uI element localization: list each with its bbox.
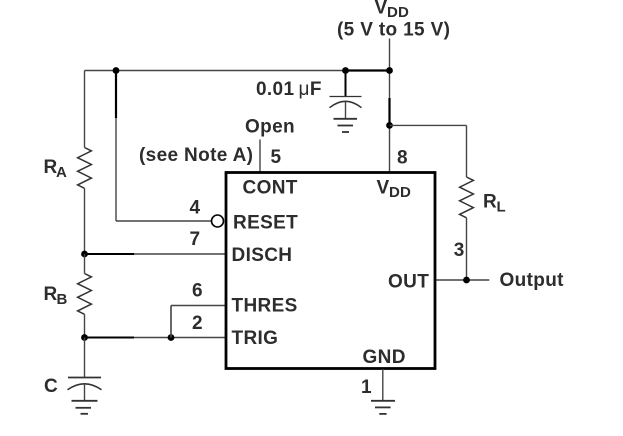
svg-text:THRES: THRES xyxy=(232,296,298,317)
svg-text:4: 4 xyxy=(190,198,201,219)
junction VDD to RL branch xyxy=(386,122,393,129)
RESET inverting bubble xyxy=(212,215,224,227)
wire VDD pin 8 lead xyxy=(389,125,391,172)
resistor RA xyxy=(78,148,92,189)
label RL xyxy=(483,192,506,216)
wire CONT pin 5 lead xyxy=(259,140,261,173)
svg-text:0.01 μF: 0.01 μF xyxy=(256,79,322,100)
wire RESET branch vertical thick part xyxy=(115,70,117,119)
svg-text:OUT: OUT xyxy=(388,272,429,293)
wire RA bottom lead to DISCH node xyxy=(84,188,86,254)
svg-text:DISCH: DISCH xyxy=(232,245,293,266)
label VDD pin inside xyxy=(377,178,412,202)
wire THRES horizontal xyxy=(171,305,226,307)
capacitor bypass lead thick xyxy=(345,71,347,97)
ground C xyxy=(72,401,98,414)
svg-text:A: A xyxy=(56,164,67,181)
svg-text:1: 1 xyxy=(361,377,372,398)
svg-text:3: 3 xyxy=(454,240,465,261)
wire OUT horizontal xyxy=(436,279,490,281)
wire DISCH thin part xyxy=(134,253,226,255)
label RB xyxy=(44,284,68,308)
wire RL bottom lead xyxy=(466,218,468,280)
junction THRES branch node xyxy=(168,334,175,341)
svg-text:B: B xyxy=(57,291,68,308)
junction TRIG node xyxy=(81,334,88,341)
svg-text:L: L xyxy=(497,199,506,216)
wire THRES branch vertical xyxy=(170,306,172,338)
label RA xyxy=(44,157,68,181)
wire DISCH thick part xyxy=(85,253,135,255)
wire VDD stem xyxy=(389,39,391,71)
wire VDD vertical thin upper xyxy=(389,71,391,99)
wire TRIG thin part xyxy=(134,337,226,339)
svg-text:C: C xyxy=(44,376,58,397)
ground GND pin xyxy=(371,401,395,414)
resistor RL xyxy=(460,177,474,218)
ground bypass cap xyxy=(334,119,358,132)
IC U1 555 timer box xyxy=(226,173,435,369)
svg-text:8: 8 xyxy=(397,148,408,169)
svg-text:RESET: RESET xyxy=(233,213,298,234)
junction top bypass cap xyxy=(342,67,349,74)
svg-text:V: V xyxy=(377,178,390,199)
svg-text:Open: Open xyxy=(245,117,295,138)
svg-text:GND: GND xyxy=(363,347,406,368)
junction DISCH node xyxy=(81,251,88,258)
junction OUT node xyxy=(463,277,470,284)
svg-text:CONT: CONT xyxy=(243,178,298,199)
junction top-left (RESET branch) xyxy=(113,67,120,74)
wire top horizontal xyxy=(85,70,346,72)
svg-text:(5 V to 15 V): (5 V to 15 V) xyxy=(337,20,450,41)
capacitor C xyxy=(68,378,102,401)
svg-text:TRIG: TRIG xyxy=(232,328,279,349)
svg-text:5: 5 xyxy=(271,147,282,168)
svg-text:DD: DD xyxy=(387,4,409,21)
wire GND pin 1 lead xyxy=(382,369,384,401)
svg-text:Output: Output xyxy=(500,270,565,291)
wire RB top lead xyxy=(84,254,86,274)
svg-text:DD: DD xyxy=(389,184,411,201)
svg-text:7: 7 xyxy=(190,229,201,250)
wire C top lead xyxy=(84,338,86,378)
capacitor bypass 0.01uF xyxy=(330,97,362,119)
svg-text:R: R xyxy=(44,284,58,305)
wire RL branch horizontal xyxy=(390,124,467,126)
wire RB bottom lead xyxy=(84,314,86,337)
svg-text:R: R xyxy=(483,192,497,213)
wire RL top lead xyxy=(466,125,468,177)
wire left vertical upper (RA branch) xyxy=(84,71,86,148)
svg-text:6: 6 xyxy=(192,281,203,302)
svg-text:2: 2 xyxy=(192,313,203,334)
junction top VDD corner xyxy=(386,67,393,74)
svg-text:(see Note A): (see Note A) xyxy=(139,145,253,166)
wire top-right thick segment xyxy=(346,69,390,71)
wire TRIG thick part xyxy=(85,337,135,339)
wire RESET horizontal xyxy=(116,220,211,222)
wire RESET branch vertical thin part xyxy=(115,118,117,221)
wire VDD vertical thick lower xyxy=(388,98,390,125)
resistor RB xyxy=(78,274,92,315)
svg-text:V: V xyxy=(375,0,388,19)
label VDD supply xyxy=(337,0,450,41)
